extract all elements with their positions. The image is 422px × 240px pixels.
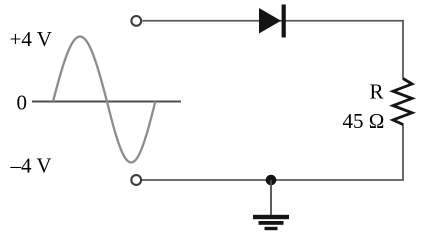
svg-text:R: R	[370, 80, 384, 104]
svg-text:+4 V: +4 V	[10, 27, 52, 51]
svg-text:–4 V: –4 V	[10, 154, 52, 178]
svg-text:45 Ω: 45 Ω	[343, 109, 385, 133]
svg-text:0: 0	[17, 91, 28, 115]
